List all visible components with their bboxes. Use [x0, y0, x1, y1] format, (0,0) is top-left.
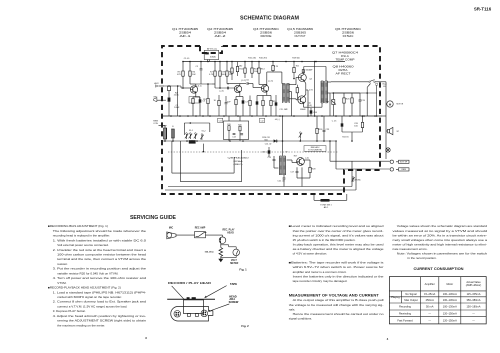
svg-text:EXT SP: EXT SP — [400, 162, 408, 164]
svg-text:variable resistor R20 for 0.04: variable resistor R20 for 0.045 Volt on … — [57, 271, 118, 275]
motor M1 — [386, 101, 404, 107]
svg-text:2. Unsolder the red wire at th: 2. Unsolder the red wire at the head ter… — [53, 248, 147, 252]
svg-text:(-0.1): (-0.1) — [197, 86, 202, 88]
boxed label REF ADJ TO K9 — [304, 146, 326, 152]
capacitor C6a lower row — [225, 96, 232, 116]
bias adjust network R19 R20 C13 — [223, 116, 248, 141]
capacitor C21 .04 — [277, 175, 285, 187]
svg-text:TO K9 (WHITE): TO K9 (WHITE) — [308, 149, 322, 151]
wire output right vertical 1 — [366, 84, 370, 117]
svg-text:Fig. 2: Fig. 2 — [241, 324, 249, 328]
svg-text:10K(B): 10K(B) — [210, 56, 216, 58]
svg-text:1. Load a standard tape (PHIL: 1. Load a standard tape (PHILIPS NB. H67… — [53, 290, 146, 294]
svg-text:350~380mA: 350~380mA — [466, 298, 480, 302]
svg-text:+B (-): +B (-) — [274, 119, 279, 121]
svg-text:SCREW: SCREW — [229, 300, 239, 304]
svg-text:tape recorder circuitry may be: tape recorder circuitry may be damaged. — [293, 279, 348, 283]
transistor Q5 output — [298, 96, 306, 104]
svg-text:100~130mA: 100~130mA — [443, 305, 457, 309]
svg-text:meter of high sensitivity and: meter of high sensitivity and high inter… — [393, 242, 488, 246]
resistor R28 — [304, 160, 317, 178]
resistor R17 bias — [296, 85, 298, 99]
wire mid rail record-play — [163, 140, 335, 142]
figure 1 microphone — [167, 227, 176, 239]
svg-text:100-Ohm: 100-Ohm — [205, 252, 214, 254]
svg-text:C13: C13 — [232, 137, 235, 139]
jack MIC input — [154, 97, 166, 102]
resistor R12 — [239, 62, 246, 79]
svg-text:nate measurement errors.: nate measurement errors. — [393, 247, 428, 251]
pilot lamp PL — [386, 148, 390, 152]
svg-text:Note: Voltages shown in parent: Note: Voltages shown in parentheses are … — [397, 252, 488, 256]
speaker SP — [386, 127, 400, 134]
label B+ 6V — [383, 84, 387, 89]
svg-text:B300F: B300F — [300, 109, 306, 111]
svg-text:that the pointer over the cent: that the pointer over the center of the … — [293, 229, 384, 233]
svg-text:In play-back operation, this l: In play-back operation, this level meter… — [293, 242, 384, 246]
switch contact S1-3 — [299, 132, 302, 138]
erase head — [172, 126, 175, 141]
resistor lower row x250 — [249, 96, 251, 117]
wire right lower join — [342, 132, 363, 141]
svg-text:2. Connect 8 ohm dummy load to: 2. Connect 8 ohm dummy load to Ext. Spea… — [53, 300, 147, 304]
paragraph measurement — [289, 298, 384, 320]
svg-text:C9 .05: C9 .05 — [184, 58, 190, 60]
svg-text:Recording: Recording — [399, 305, 411, 309]
svg-text:VOLT: VOLT — [231, 260, 238, 262]
capacitor C15 — [267, 156, 275, 168]
diode D1 — [274, 139, 277, 142]
svg-text:115~155mA: 115~155mA — [467, 292, 481, 296]
svg-text:R18 560: R18 560 — [292, 58, 300, 60]
svg-text:Insert the batteries only in t: Insert the batteries only in the directi… — [293, 274, 384, 278]
svg-text:C .05: C .05 — [332, 121, 337, 123]
svg-text:R27: R27 — [294, 156, 297, 158]
svg-text:1. With fresh batteries instal: 1. With fresh batteries installed or wit… — [53, 238, 147, 242]
wire Q1 emitter — [195, 93, 197, 97]
svg-text:CURRENT CONSUMPTION: CURRENT CONSUMPTION — [414, 267, 465, 271]
svg-text:REC AMP: REC AMP — [195, 226, 206, 229]
svg-text:(-1.3): (-1.3) — [219, 91, 224, 93]
label Q2 type — [207, 28, 234, 38]
capacitor C17 — [290, 167, 298, 178]
svg-text:AF-1: AF-1 — [180, 35, 192, 38]
svg-text:within 6.5V~7V when switch is: within 6.5V~7V when switch is on. Power … — [293, 265, 384, 269]
wire T3 bottom extended — [330, 92, 377, 94]
wire input to Q1 base — [181, 86, 190, 88]
svg-text:DRIVE: DRIVE — [261, 35, 272, 38]
svg-text:nals.: nals. — [289, 307, 296, 311]
jack EXT SP — [390, 160, 409, 164]
svg-text:S1-1: S1-1 — [189, 130, 193, 132]
figure 1 100-ohm resistor — [205, 243, 223, 258]
resistor R14 — [258, 62, 266, 85]
svg-text:50 mA: 50 mA — [426, 305, 434, 309]
svg-text:TAPE: TAPE — [230, 282, 237, 286]
svg-text:MIC: MIC — [169, 227, 174, 229]
thermistor K9 — [326, 92, 336, 116]
resistor R3 47K — [177, 62, 184, 89]
wire to ext jacks 2 — [336, 168, 390, 170]
transistor Q3 — [261, 85, 269, 92]
electrolytic capacitor C8 — [256, 96, 263, 117]
svg-text:4. Turn off power and remove: 4. Turn off power and remove the 100-ohm… — [53, 276, 147, 280]
figure 2 label head adj screw — [208, 294, 239, 311]
resistor R14a top row — [272, 61, 279, 72]
wire T1 secondary to output bases — [289, 78, 298, 117]
svg-text:C11: C11 — [219, 120, 222, 122]
electrolytic capacitor C2 input — [168, 98, 181, 117]
dashed switch gang link — [168, 151, 338, 153]
resistor R25 — [333, 93, 350, 116]
svg-text:MEASUREMENT OF VOLTAGE AND CUR: MEASUREMENT OF VOLTAGE AND CURRENT — [289, 294, 380, 298]
svg-text:mely small voltages often come: mely small voltages often come into ques… — [393, 238, 488, 242]
tone switch below board — [314, 194, 347, 209]
svg-text:(-1.2): (-1.2) — [241, 80, 246, 82]
svg-text:C15 .5MF: C15 .5MF — [279, 109, 288, 111]
svg-text:—: — — [428, 312, 431, 315]
svg-text:Hence the measurement should: Hence the measurement should be carried … — [293, 312, 384, 316]
wire external column — [380, 82, 386, 159]
svg-text:4.7K: 4.7K — [274, 66, 279, 68]
label Q8 AF rect — [333, 66, 355, 76]
electrolytic capacitor C16 — [262, 147, 270, 157]
resistor R10 10K — [226, 62, 234, 84]
svg-text:(REC): (REC) — [234, 164, 243, 166]
resistor R5 to bus — [203, 83, 209, 116]
wire to ext jacks 1 — [330, 160, 390, 162]
wire bias osc vertical — [282, 115, 284, 156]
svg-text:(-1.5): (-1.5) — [268, 81, 273, 83]
paragraph level meter and batteries — [289, 224, 384, 283]
wire bottom risers — [165, 141, 356, 190]
svg-text:Playing: Playing — [391, 295, 400, 299]
wire switch feed — [184, 122, 210, 135]
svg-text:Amplifier: Amplifier — [425, 282, 435, 286]
transformer T1 driver — [283, 84, 290, 104]
wire S1 to dashed link — [203, 144, 205, 153]
electrolytic capacitor C18 — [341, 116, 344, 132]
svg-text:120~150mA: 120~150mA — [443, 311, 457, 315]
resistor R12a top row — [236, 62, 243, 77]
svg-text:(-6): (-6) — [305, 158, 309, 160]
wire bottom supply bus — [163, 115, 382, 117]
svg-text:AF-2: AF-2 — [215, 35, 227, 38]
figure 1 wire amp to head — [206, 234, 223, 236]
svg-text:4.7K: 4.7K — [209, 74, 214, 76]
svg-text:—: — — [428, 319, 431, 322]
svg-text:AUX: AUX — [154, 82, 159, 85]
resistor R15 emitter Q3 — [262, 92, 267, 116]
svg-text:Max Output: Max Output — [404, 298, 418, 302]
resistor R27 below bus — [361, 116, 363, 132]
resistor R13 240 — [251, 62, 259, 79]
svg-text:4. Adjust the head azimuth: 4. Adjust the head azimuth position by t… — [53, 314, 146, 318]
svg-text:R16 2K2: R16 2K2 — [259, 57, 268, 59]
svg-text:R20: R20 — [238, 124, 241, 126]
svg-text:signal conditions.: signal conditions. — [289, 316, 313, 320]
figure 2 adjustment screw right — [201, 310, 208, 317]
resistor R23 — [344, 93, 353, 116]
electrolytic capacitor C14 100MF — [310, 108, 318, 116]
resistor R6a lower row — [214, 95, 221, 116]
wire feedback loop 1 — [172, 141, 234, 173]
switch S1-2 contact — [200, 131, 205, 141]
svg-text:100~130mA: 100~130mA — [443, 292, 457, 296]
wire top supply rail — [183, 61, 345, 63]
solenoid B-1 block — [189, 140, 196, 143]
wire VOL pot feed — [206, 60, 208, 62]
svg-text:sening the ADJUSTMENT SCREW (r: sening the ADJUSTMENT SCREW (right side)… — [57, 319, 146, 323]
svg-text:be within an error of 20%. As: be within an error of 20%. As in a trans… — [393, 233, 488, 237]
svg-text:—: — — [472, 319, 475, 322]
svg-text:RECORD / PLAY HEAD: RECORD / PLAY HEAD — [168, 281, 211, 285]
transistor Q6 oscillator — [297, 158, 305, 166]
wire Q1 collector to coupling — [196, 83, 212, 85]
svg-text:amplifier and motor is a commo: amplifier and motor is a common circuit. — [293, 270, 347, 274]
wire bottom long 1 — [168, 186, 352, 188]
paragraph recording bias adjustment — [48, 224, 146, 327]
transistor Q4 output — [298, 74, 306, 82]
svg-text:METER: METER — [230, 263, 238, 265]
label Q7 temp comp — [332, 52, 359, 62]
svg-text:S1-2: S1-2 — [202, 131, 206, 133]
svg-text:R2HA: R2HA — [234, 160, 244, 163]
svg-text:Volt external power source con: Volt external power source connected. — [57, 243, 109, 247]
svg-text:the voltage to be measured wil: the voltage to be measured will change w… — [289, 303, 384, 307]
figure 1 ground — [218, 259, 223, 262]
jack REM-CON — [153, 121, 165, 129]
wire osc couplings — [274, 156, 298, 168]
wire Q3 collector to T1 — [259, 72, 283, 85]
wire feedback loop 2 — [180, 141, 241, 182]
transformer T2 oscillator — [280, 156, 286, 175]
wire input from MIC jack — [164, 85, 182, 87]
table current consumption — [389, 277, 486, 324]
resistor R16a to Q4 base — [293, 61, 295, 80]
svg-text:R19: R19 — [227, 124, 230, 126]
svg-text:in the record position.: in the record position. — [408, 256, 437, 260]
svg-text:100-ohm carbon composite resis: 100-ohm carbon composite resistor betwee… — [57, 253, 146, 257]
svg-text:AF RECT: AF RECT — [336, 73, 352, 76]
resistor R1 input — [167, 86, 170, 97]
svg-text:100~130mA: 100~130mA — [443, 298, 457, 302]
resistor R10a top row — [231, 61, 233, 80]
svg-text:3. Put the recorder in recordi: 3. Put the recorder in recording positio… — [53, 267, 147, 271]
svg-text:resistor.: resistor. — [57, 262, 68, 266]
svg-text:HEAD: HEAD — [227, 231, 234, 234]
electrolytic capacitor C3 bypass — [196, 97, 206, 116]
jack REM — [390, 168, 409, 172]
svg-text:Q4: Q4 — [309, 79, 312, 81]
svg-text:250mA: 250mA — [426, 298, 434, 302]
resistor R26 — [316, 116, 323, 141]
svg-text:of 4.5V at same direction.: of 4.5V at same direction. — [293, 252, 328, 256]
svg-text:Fast Forward: Fast Forward — [397, 318, 413, 322]
wire osc output — [297, 167, 310, 186]
svg-text:SCHEMATIC DIAGRAM: SCHEMATIC DIAGRAM — [240, 15, 299, 21]
svg-text:■Batteries: The tape recorder: ■Batteries: The tape recorder will work … — [289, 261, 384, 265]
svg-text:values measured at no signal: values measured at no signal by a VTVM a… — [393, 229, 488, 233]
svg-text:R21: R21 — [296, 66, 299, 68]
svg-text:C12: C12 — [261, 120, 264, 122]
figure 1 volt meter — [221, 245, 240, 265]
record-play head R/P — [163, 126, 167, 142]
switch contact remote below board — [352, 177, 361, 182]
svg-text:10K: 10K — [229, 74, 233, 76]
wire T3 secondary to speaker switch — [328, 81, 369, 83]
label R15 240 above rail — [248, 57, 268, 59]
figure 2 label tape — [205, 282, 238, 298]
svg-text:Q8 H40060: Q8 H40060 — [228, 158, 250, 160]
svg-text:SERVICING GUIDE: SERVICING GUIDE — [130, 215, 177, 221]
volume control VR1 10K(B) — [204, 47, 219, 61]
wire vertical rail x314 — [314, 61, 316, 117]
resistor R4 100K — [189, 62, 196, 85]
capacitor C5 top row — [195, 61, 202, 84]
transformer T3 output — [321, 81, 328, 103]
resistor R21 above Q4 — [302, 69, 313, 72]
svg-text:Fig. 1: Fig. 1 — [239, 268, 247, 272]
wire output right vertical 2 — [362, 83, 378, 116]
svg-text:AF VOL (C): AF VOL (C) — [207, 47, 217, 50]
svg-text:TEMP COMP: TEMP COMP — [336, 59, 356, 62]
jack AUX input — [154, 82, 164, 87]
svg-text:ing current of 1000 c/s signal: ing current of 1000 c/s signal, and it's… — [293, 233, 384, 237]
label R24 560 — [262, 137, 270, 141]
wire output emitters join — [304, 81, 308, 116]
switch contact output mute — [369, 80, 380, 83]
svg-text:as a battery checker and the m: as a battery checker and the meter is al… — [293, 247, 384, 251]
svg-text:■RECORDING BIAS ADJUSTMENT (F: ■RECORDING BIAS ADJUSTMENT (Fig. 1) — [48, 224, 108, 228]
label Q6 type — [335, 28, 361, 38]
svg-text:Rewinding: Rewinding — [399, 311, 412, 315]
capacitor C23 47 — [323, 116, 330, 141]
svg-text:connect a V.T.V.M. (1.5V AC ra: connect a V.T.V.M. (1.5V AC range) acros… — [57, 304, 127, 308]
svg-text:(MOM): (MOM) — [355, 180, 361, 182]
svg-text:VTVM.: VTVM. — [57, 281, 66, 285]
svg-text:The following adjustment shoul: The following adjustment should be made … — [53, 229, 147, 233]
label Q8 rec amp — [228, 158, 250, 167]
boxed label C11 near bus — [218, 118, 223, 122]
svg-text:At the output stage of this am: At the output stage of this amplifier is… — [293, 298, 384, 302]
svg-text:REC. PLAY: REC. PLAY — [222, 229, 235, 232]
capacitor C19 — [352, 93, 366, 116]
svg-text:OSC: OSC — [343, 35, 354, 38]
label Q4,5 type — [287, 28, 314, 38]
svg-text:■Level meter is indicated reco: ■Level meter is indicated recording leve… — [289, 224, 384, 228]
wire Q1 collector — [190, 83, 196, 85]
svg-text:47K: 47K — [177, 74, 181, 76]
transistor Q2 — [234, 85, 242, 92]
dashed circuit-board outline — [162, 46, 380, 194]
switch S1-1 contacts — [185, 130, 197, 139]
capacitor C4 coupling — [227, 84, 230, 90]
svg-text:10MF: 10MF — [174, 107, 180, 109]
resistor R11 emitter Q2 — [235, 92, 240, 116]
boxed label C5 10MF — [189, 97, 200, 104]
svg-text:15~25mA: 15~25mA — [424, 292, 435, 296]
svg-text:(AMP+Motor): (AMP+Motor) — [466, 283, 482, 287]
svg-text:terminal and the wire, then c: terminal and the wire, then connect a VT… — [57, 257, 146, 261]
wire input second vertical — [177, 85, 179, 116]
svg-text:560(B)F: 560(B)F — [306, 69, 314, 71]
wire T3 secondary bottom — [328, 93, 331, 116]
wire bias feed — [286, 138, 300, 146]
figure 1 wire mic to amp — [176, 234, 195, 236]
label Q1 type — [172, 28, 199, 38]
capacitor C6 coupling — [240, 80, 253, 85]
svg-text:—: — — [472, 312, 475, 315]
svg-text:25 μA when switch is in the RE: 25 μA when switch is in the RECORD posit… — [293, 238, 356, 242]
paragraph voltage values — [393, 224, 488, 260]
electrolytic capacitor lower row x276 — [275, 95, 278, 116]
figure 2 label record-play head — [168, 281, 211, 307]
figure 2 base plate — [171, 307, 213, 322]
svg-text:Voltage values shown the schem: Voltage values shown the schematic diagr… — [397, 224, 488, 228]
svg-text:REM: REM — [401, 169, 406, 171]
resistor R7 47K — [209, 62, 216, 89]
wire Q3 base — [253, 84, 261, 88]
svg-text:CON: CON — [153, 123, 158, 125]
wire Q2 base — [212, 84, 234, 89]
svg-text:Motor: Motor — [446, 282, 453, 286]
wire riser x336 — [335, 141, 337, 169]
svg-text:3. Depress PLAY button.: 3. Depress PLAY button. — [53, 309, 86, 313]
svg-text:10K: 10K — [192, 74, 196, 76]
svg-text:150~180mA: 150~180mA — [466, 305, 480, 309]
junction dots on bus — [170, 61, 376, 117]
svg-text:SR-T116: SR-T116 — [474, 7, 492, 12]
boxed label C12 near bus — [260, 118, 265, 122]
figure 2 head block — [184, 300, 204, 316]
svg-text:OUT PUT: OUT PUT — [295, 35, 306, 38]
wire output collectors to T3 — [304, 67, 327, 108]
svg-text:No Signal: No Signal — [405, 292, 417, 296]
svg-text:corded with 6000Hz signal on t: corded with 6000Hz signal on the tape re… — [57, 295, 122, 299]
figure 2 head cap marks — [187, 297, 196, 299]
resistor R16 — [267, 96, 278, 117]
svg-text:the maximum reading on the met: the maximum reading on the meter. — [57, 323, 105, 327]
figure 2 tape line — [167, 298, 215, 300]
transistor Q1 — [190, 86, 198, 93]
svg-text:MOTOR: MOTOR — [397, 104, 404, 106]
label C20 100MF — [354, 123, 359, 127]
svg-text:recording head is replaced in: recording head is replaced in the amplif… — [53, 234, 110, 238]
svg-text:R22 1K: R22 1K — [342, 137, 349, 139]
label Q3 type — [253, 28, 279, 38]
svg-text:R15 240: R15 240 — [248, 57, 257, 59]
svg-text:120~150mA: 120~150mA — [443, 318, 457, 322]
svg-text:Q5: Q5 — [308, 103, 311, 105]
junction dots mid rail — [164, 140, 353, 142]
svg-text:■RECORD-PLAYBACK HEAD ADJUSTME: ■RECORD-PLAYBACK HEAD ADJUSTMENT (Fig. 2… — [48, 286, 121, 290]
svg-text:C14 .02: C14 .02 — [265, 144, 272, 146]
svg-text:220K: 220K — [174, 95, 179, 97]
wire bottom long 2 — [165, 189, 356, 191]
wire Q2 collector — [227, 83, 240, 85]
resistor R9 100K — [219, 62, 227, 89]
electrolytic capacitor C7 — [240, 97, 249, 117]
resistor R6 emitter — [192, 97, 196, 116]
label R2 220K — [174, 93, 179, 97]
figure 1 rec-play head — [219, 229, 235, 244]
figure 2 left mounting screw — [174, 311, 181, 318]
figure 1 rec amp box — [195, 226, 207, 237]
wire riser x330 — [329, 141, 331, 161]
